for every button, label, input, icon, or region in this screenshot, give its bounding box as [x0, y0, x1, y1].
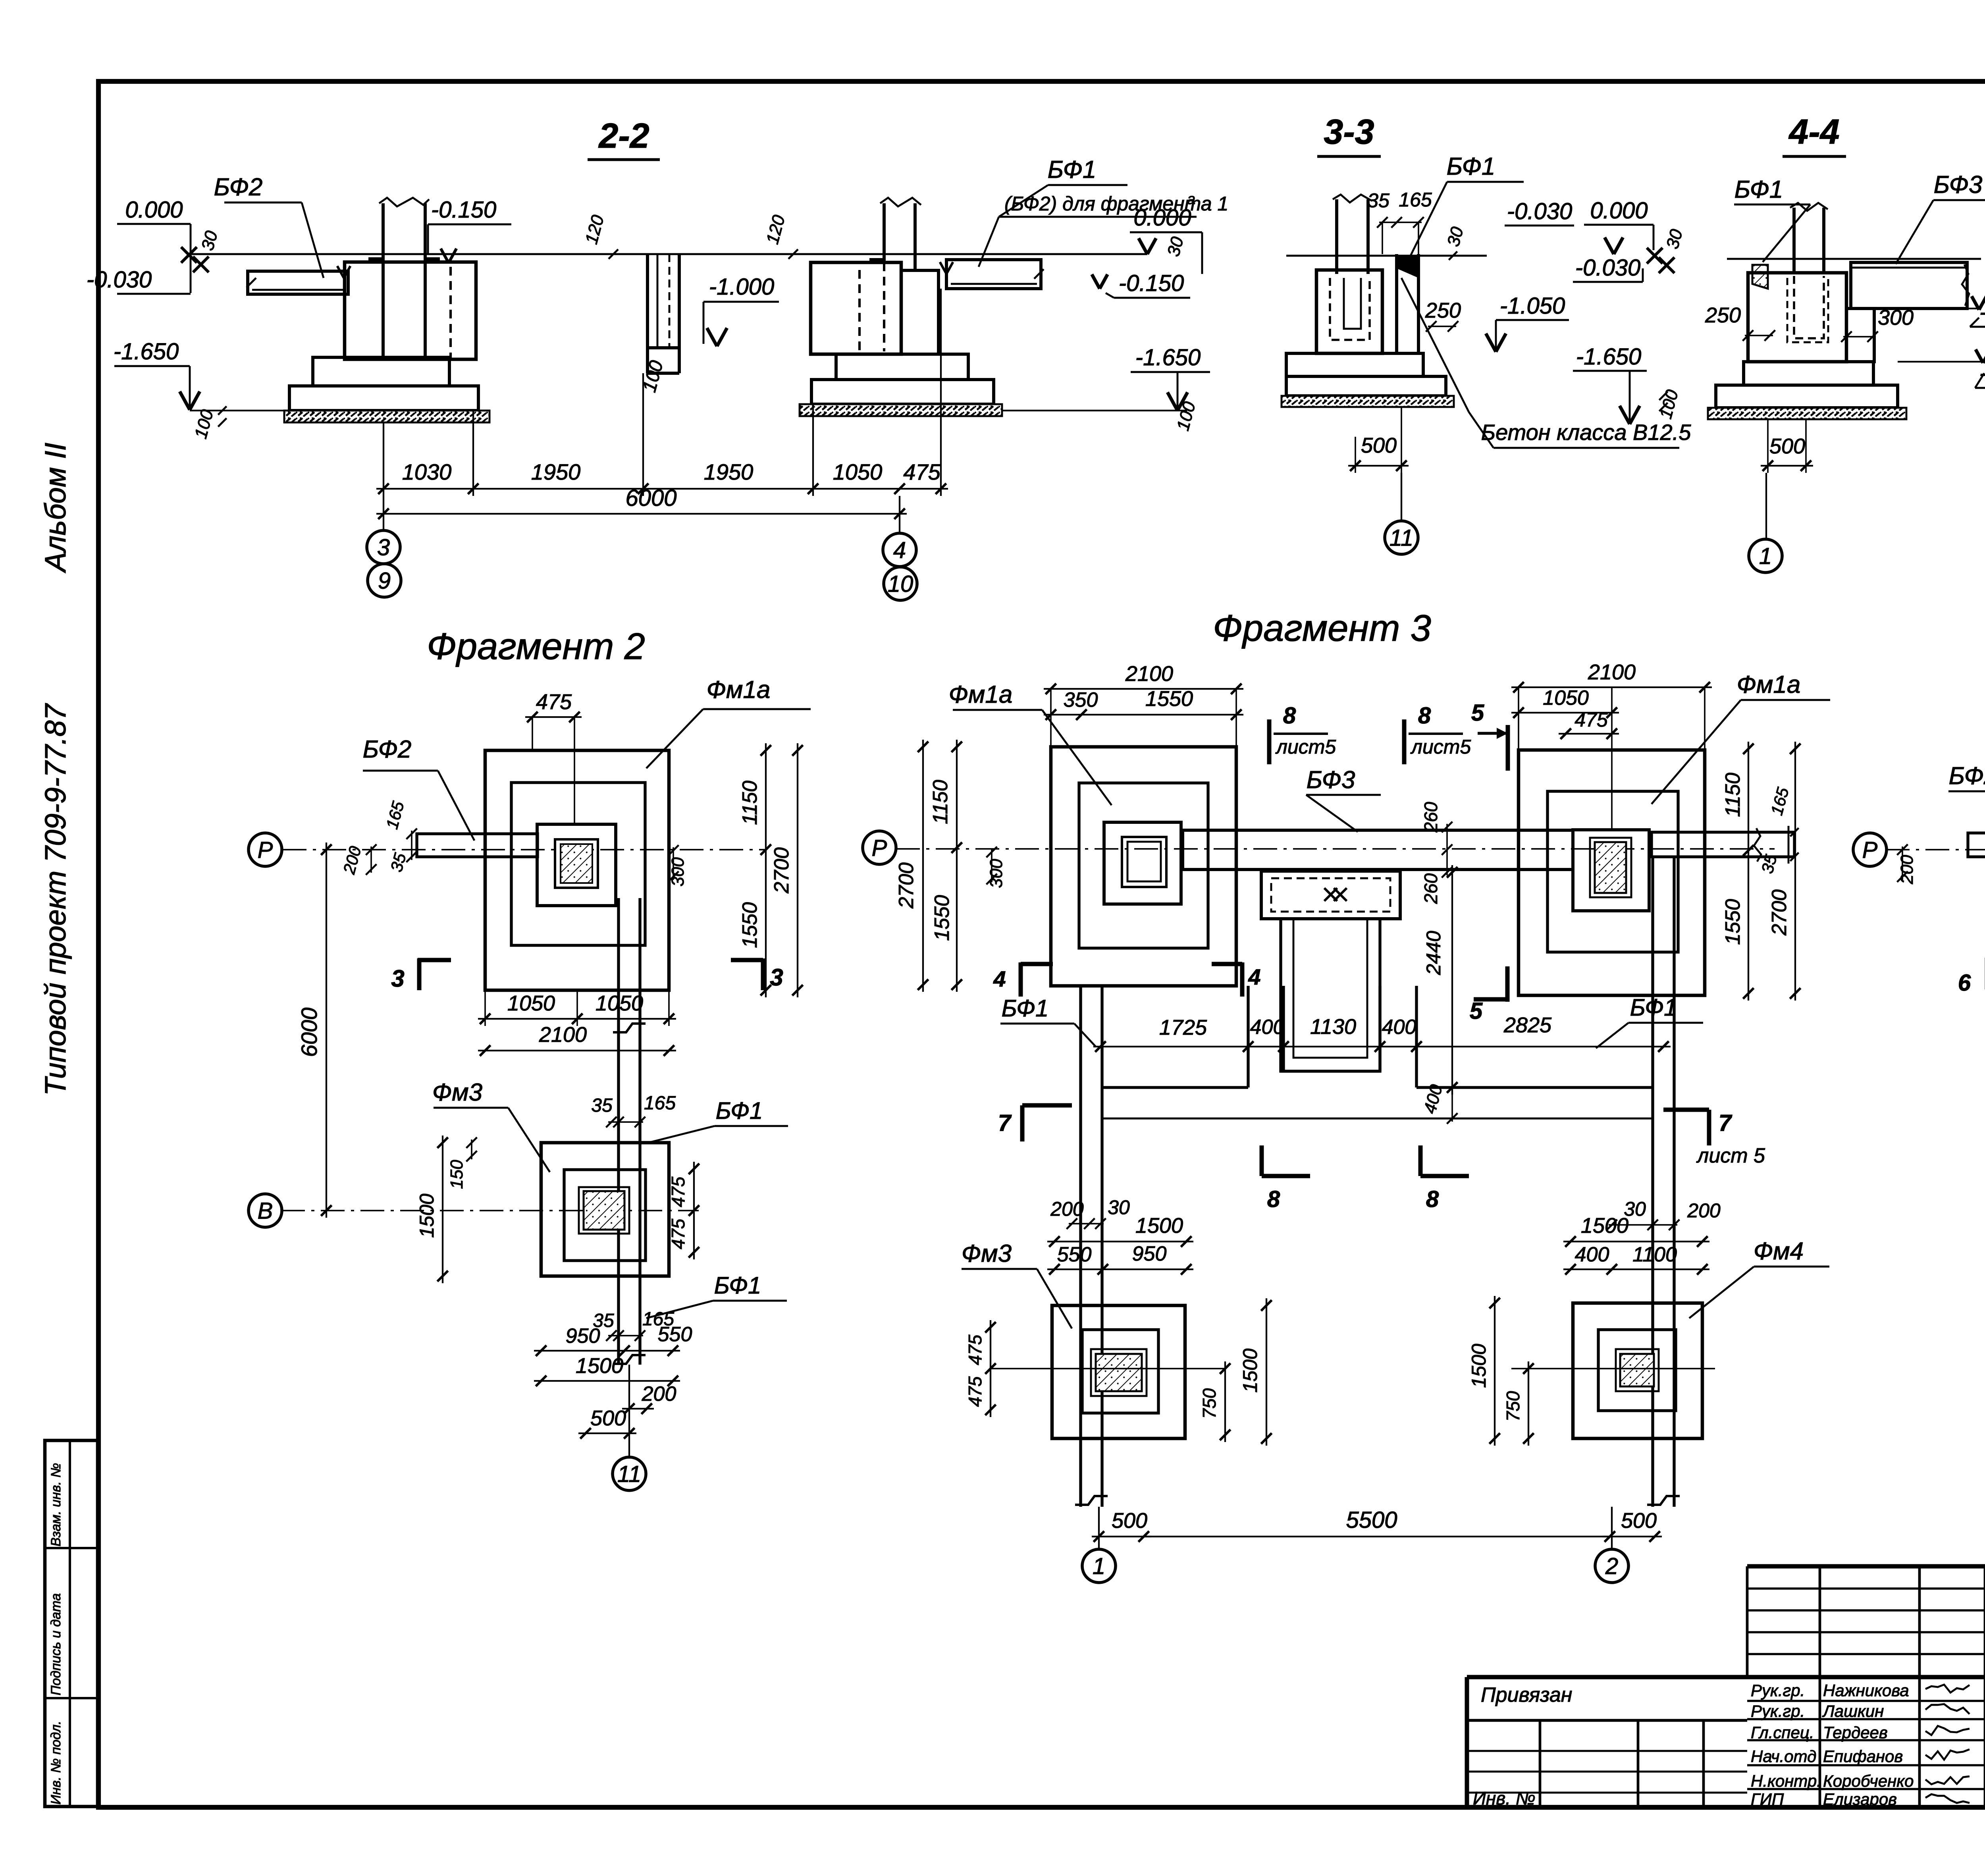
svg-text:475: 475: [965, 1334, 985, 1365]
level -1.650 (3-3/4-4): [1573, 344, 1647, 424]
svg-text:2-2: 2-2: [598, 116, 649, 155]
svg-text:1950: 1950: [531, 459, 581, 484]
note Бетон класса В12.5: [1401, 278, 1691, 448]
dim 300 (4-4): [1841, 306, 1914, 342]
footing Фм4 outline (frag3): [1573, 1303, 1702, 1438]
label Фм3 (frag3): [962, 1240, 1072, 1328]
dim 300 (frag2): [668, 845, 688, 887]
beam БФ3 plan (frag3): [1183, 830, 1573, 870]
svg-text:200: 200: [1050, 1198, 1084, 1220]
axis line (3-3): [1401, 473, 1402, 521]
pit block (4-4): [1748, 273, 1846, 362]
svg-text:-0.030: -0.030: [87, 267, 152, 293]
label БФЗ (frag3): [1306, 766, 1381, 832]
dim 500 (4-4): [1761, 419, 1813, 473]
svg-text:0.000: 0.000: [1590, 198, 1648, 224]
dim 1500 (frag3 bottom-right): [1563, 1214, 1709, 1247]
dim 350/1550 (frag3 left): [1044, 687, 1243, 720]
dim 400 vert (frag3): [1420, 1082, 1458, 1124]
svg-text:750: 750: [1199, 1388, 1220, 1419]
svg-text:475: 475: [536, 690, 572, 714]
beam БФ1 end view (4-4): [1752, 265, 1768, 289]
foundation beam БФ2 left (2-2): [247, 266, 351, 294]
axis line (4-4): [1765, 473, 1767, 539]
svg-text:30: 30: [1108, 1196, 1130, 1219]
footing Фм3 outline (frag3): [1052, 1305, 1185, 1438]
pedestal base (3-3): [1286, 376, 1446, 396]
axis circle 11 (3-3): [1385, 521, 1418, 554]
svg-text:лист 5: лист 5: [1696, 1144, 1765, 1167]
dims 1500/150 (frag2 bottom left): [416, 1136, 477, 1283]
svg-text:475: 475: [1575, 709, 1608, 731]
section mark 4 left (frag3): [993, 962, 1053, 997]
section mark 8 bottom-left (frag3): [1262, 1145, 1310, 1212]
section 3-3 title: [1317, 112, 1381, 156]
svg-text:Бетон класса В12.5: Бетон класса В12.5: [1481, 420, 1692, 445]
svg-text:-1.650: -1.650: [114, 339, 179, 364]
axis Р line (frag2): [283, 849, 766, 850]
pedestal base (4-4): [1716, 385, 1898, 408]
svg-text:Типовой проект 709-9-77.87: Типовой проект 709-9-77.87: [39, 703, 72, 1096]
axis circle 1 (4-4): [1749, 539, 1782, 573]
dim 2100 (frag2): [478, 1023, 676, 1056]
svg-text:-1.650: -1.650: [1135, 345, 1201, 370]
svg-text:Фм1а: Фм1а: [1737, 671, 1801, 698]
svg-text:475: 475: [903, 459, 940, 484]
dim 1050/1050 (frag2): [478, 990, 676, 1026]
dim 550/950 (frag3 bottom-left): [1047, 1242, 1193, 1274]
svg-text:БФ1: БФ1: [1048, 156, 1097, 183]
dim 475 top (frag2): [525, 690, 582, 825]
staff signature table: [1747, 1677, 1985, 1809]
monolith block Фм2 (frag3 centre): [1261, 871, 1400, 919]
dim 750 (frag3 bottom-left): [1199, 1361, 1230, 1442]
svg-text:7: 7: [998, 1110, 1012, 1136]
column section (frag3 bottom-right footing): [1616, 1349, 1659, 1391]
svg-text:5: 5: [1470, 998, 1483, 1024]
svg-text:-1.000: -1.000: [709, 274, 774, 300]
label БФ1 right (frag3): [1596, 994, 1703, 1048]
beam БФ2 right (frag3): [1652, 826, 1794, 864]
svg-text:Альбом II: Альбом II: [39, 443, 72, 573]
section 3-3 ground line: [1286, 255, 1487, 257]
svg-text:1550: 1550: [1721, 899, 1744, 945]
dim 35/165 top (3-3): [1367, 189, 1432, 254]
dims 475/475 (frag3 bottom-left): [965, 1320, 996, 1417]
section 4-4 ground line: [1727, 258, 1981, 260]
svg-text:260: 260: [1420, 802, 1441, 833]
section mark 3 left (frag2): [391, 958, 451, 992]
pit step right (4-4): [1846, 308, 1874, 362]
label Фм4 (frag3): [1689, 1238, 1829, 1318]
dim 100 (3-3): [1656, 388, 1682, 421]
label БФ2 (2-2): [214, 174, 324, 278]
svg-text:1500: 1500: [576, 1354, 623, 1378]
label БФ2 left (frag4): [1948, 762, 1985, 832]
gravel bed left (2-2): [284, 411, 490, 422]
svg-text:5: 5: [1471, 700, 1484, 726]
beam БФ2 plan (frag2): [417, 834, 538, 857]
section marker 8 first (frag3): [1269, 703, 1336, 764]
dim 120 left (2-2): [582, 213, 618, 259]
column section (frag2 bottom footing): [579, 1187, 629, 1234]
svg-text:400: 400: [1250, 1016, 1285, 1039]
dims 1150/1550 (frag3 left): [929, 740, 962, 992]
svg-text:лист5: лист5: [1275, 736, 1336, 758]
svg-text:2700: 2700: [1768, 889, 1791, 936]
axis circle Р (frag4): [1853, 833, 1887, 866]
svg-text:-1.050: -1.050: [1500, 293, 1565, 319]
dim 950/550 (frag2): [534, 1323, 692, 1356]
svg-text:1: 1: [1093, 1553, 1105, 1579]
svg-text:35: 35: [591, 1095, 613, 1116]
dim 500 (frag3 bottom-left): [1092, 1509, 1151, 1542]
dim 250 (3-3): [1425, 299, 1461, 332]
label Фм1а right (frag3): [1652, 671, 1830, 804]
svg-text:7: 7: [1719, 1110, 1733, 1136]
svg-text:Рук.гр.: Рук.гр.: [1751, 1702, 1805, 1720]
svg-text:2700: 2700: [895, 862, 918, 909]
axis Р line (frag4): [1886, 849, 1985, 850]
svg-text:550: 550: [1057, 1243, 1092, 1266]
dims 475/475 (frag2 bottom right): [668, 1162, 699, 1259]
axis В line (frag2): [281, 1210, 699, 1211]
pit below (frag3 centre): [1281, 919, 1380, 1071]
dim 475 (frag3 right): [1559, 687, 1619, 830]
svg-text:1050: 1050: [507, 991, 555, 1015]
svg-text:5500: 5500: [1346, 1507, 1397, 1533]
pedestal step (4-4): [1744, 362, 1873, 385]
svg-text:Фм4: Фм4: [1754, 1238, 1804, 1265]
section marker 8 second (frag3): [1404, 703, 1471, 764]
svg-text:250: 250: [1425, 299, 1461, 322]
svg-text:Р: Р: [872, 835, 887, 861]
floor duct (2-2 centre): [639, 254, 679, 395]
dim 1500 (frag3 bottom-left): [1047, 1214, 1193, 1247]
dim 30/200 (frag3 bottom-right): [1607, 1198, 1721, 1230]
svg-text:400: 400: [1382, 1016, 1416, 1039]
dims 260/260 (frag3): [1420, 802, 1452, 904]
Привязан block: [1467, 1683, 1747, 1809]
axis line to circle 11 (frag2): [628, 1365, 630, 1458]
svg-text:6: 6: [1958, 970, 1971, 996]
column pedestal Фм1а right (2-2): [811, 198, 939, 354]
section mark 7 right (frag3): [1663, 1110, 1765, 1167]
gravel bed (4-4): [1708, 408, 1906, 419]
axis circle 11 (frag2): [613, 1457, 646, 1490]
svg-text:БФ3: БФ3: [1934, 171, 1983, 199]
svg-text:500: 500: [1361, 434, 1397, 457]
svg-text:1500: 1500: [1468, 1344, 1490, 1388]
svg-text:3-3: 3-3: [1324, 112, 1374, 151]
column pit (frag3 right footing): [1573, 830, 1649, 911]
svg-text:750: 750: [1503, 1391, 1523, 1421]
svg-text:1050: 1050: [833, 459, 883, 484]
svg-text:Гл.спец.: Гл.спец.: [1751, 1723, 1814, 1742]
svg-text:475: 475: [668, 1219, 688, 1249]
svg-text:500: 500: [1769, 434, 1805, 458]
column pedestal Фм1а left (2-2): [345, 198, 476, 359]
pit block Фм (3-3): [1316, 270, 1382, 353]
svg-text:11: 11: [617, 1461, 641, 1487]
pedestal step 2 right (2-2): [811, 380, 994, 404]
svg-text:-0.150: -0.150: [1119, 270, 1184, 296]
svg-text:400: 400: [1575, 1243, 1609, 1266]
svg-text:1725: 1725: [1159, 1016, 1207, 1039]
pedestal step 1 right (2-2): [836, 354, 968, 380]
dim 300 (frag3): [987, 847, 1006, 888]
svg-text:Привязан: Привязан: [1481, 1683, 1572, 1706]
footing Фм1а right inner (frag3): [1548, 791, 1678, 952]
axis line left (2-2): [383, 496, 384, 531]
dim 1500 vert (frag3 bottom-right): [1468, 1296, 1500, 1446]
vertical beam БФ1 right (frag3): [1647, 857, 1680, 1507]
svg-text:950: 950: [566, 1325, 600, 1348]
dim 400/1100 (frag3 bottom-right): [1563, 1243, 1709, 1274]
svg-text:БФ3: БФ3: [1307, 766, 1355, 794]
dim 1500 bottom (frag2): [534, 1354, 680, 1386]
fragment 3 title: [1213, 607, 1431, 649]
footing Фм1а inner step (frag2): [511, 783, 645, 945]
level -1.000 (2-2): [703, 274, 779, 346]
svg-text:500: 500: [1112, 1509, 1147, 1533]
dim row 1725/400/1130/400/2825 (frag3): [1093, 1013, 1671, 1052]
svg-text:2: 2: [1605, 1553, 1618, 1579]
axis line horizontal (frag3 bottom-right): [1511, 1368, 1715, 1369]
svg-text:БФ2: БФ2: [214, 174, 263, 201]
svg-text:-0.030: -0.030: [1575, 255, 1640, 281]
svg-text:Р: Р: [1862, 837, 1878, 863]
svg-text:1050: 1050: [595, 991, 643, 1015]
svg-text:475: 475: [965, 1376, 985, 1407]
svg-text:165: 165: [644, 1093, 676, 1114]
section mark 7 left (frag3): [998, 1105, 1072, 1141]
svg-text:8: 8: [1426, 1186, 1439, 1212]
svg-text:БФ1: БФ1: [1734, 176, 1783, 203]
level -0.150 (2-2 left): [428, 197, 511, 263]
axis line to circle 1 (frag3): [1098, 1507, 1100, 1549]
svg-text:3: 3: [377, 534, 390, 560]
svg-text:БФ2: БФ2: [363, 736, 412, 763]
axis line right (2-2): [899, 496, 900, 534]
svg-text:БФ2: БФ2: [1949, 762, 1985, 790]
svg-text:1: 1: [1759, 543, 1772, 569]
svg-text:260: 260: [1420, 873, 1441, 904]
svg-text:10: 10: [888, 571, 913, 597]
vertical beam БФ1 left (frag3): [1075, 986, 1108, 1507]
dim 200 bottom (frag2): [622, 1382, 676, 1414]
svg-text:1950: 1950: [704, 459, 754, 484]
svg-text:Фм1а: Фм1а: [949, 681, 1013, 708]
dim 1500 vert (frag3 bottom-left): [1239, 1298, 1272, 1446]
svg-text:1550: 1550: [738, 902, 761, 948]
svg-text:950: 950: [1132, 1242, 1167, 1265]
dim row 6000 (2-2): [376, 485, 907, 519]
dim 200 (frag4 left): [1897, 844, 1917, 885]
svg-text:Инв. № подл.: Инв. № подл.: [48, 1721, 64, 1805]
fragment 2 title: [427, 625, 645, 667]
svg-text:4: 4: [993, 966, 1006, 991]
svg-text:200: 200: [642, 1382, 676, 1406]
pedestal step (3-3): [1286, 353, 1423, 376]
svg-text:1100: 1100: [1632, 1243, 1677, 1266]
svg-text:Взам. инв. №: Взам. инв. №: [48, 1463, 64, 1546]
label БФ3 (4-4): [1896, 171, 1985, 264]
svg-text:Елизаров: Елизаров: [1823, 1790, 1897, 1809]
footing Фм1а left outline (frag3): [1051, 747, 1236, 986]
svg-text:8: 8: [1283, 703, 1296, 729]
axis circle 10 (2-2): [884, 567, 917, 600]
axis line horizontal (frag3 bottom-left): [991, 1368, 1225, 1369]
section mark 4 right (frag3): [1212, 962, 1261, 997]
section mark 8 bottom-right (frag3): [1420, 1145, 1469, 1212]
axis circle 9 (2-2): [368, 564, 401, 597]
axis circle Р (frag3): [863, 831, 896, 864]
label БФ2 (frag2): [363, 736, 474, 841]
svg-text:0.000: 0.000: [1133, 205, 1191, 231]
svg-text:550: 550: [658, 1323, 692, 1346]
svg-text:165: 165: [1399, 189, 1432, 211]
svg-text:11: 11: [1389, 525, 1413, 551]
svg-text:Н.контр.: Н.контр.: [1751, 1772, 1821, 1790]
beam БФ1 end view (3-3): [1397, 254, 1418, 353]
dim 2700 (frag3 left): [895, 740, 928, 992]
svg-text:8: 8: [1418, 703, 1431, 729]
svg-text:Фм1а: Фм1а: [707, 676, 771, 704]
svg-text:300: 300: [1878, 306, 1914, 330]
svg-text:Нажникова: Нажникова: [1823, 1681, 1909, 1700]
dims 200/35/165 (frag2 beam): [339, 799, 417, 876]
svg-text:ГИП: ГИП: [1751, 1790, 1784, 1809]
beam БФ3 (4-4): [1851, 262, 1969, 308]
axis line to circle 2 (frag3): [1611, 1507, 1613, 1549]
dim row 1030/1950/1950/1050/475 (2-2): [376, 289, 948, 496]
level -1.650 right (2-2): [1002, 345, 1210, 433]
column section (frag3 bottom-left footing): [1091, 1349, 1147, 1396]
label БФ1/(БФ2) для фрагмента 1а (2-2): [979, 156, 1228, 267]
dim 500 bottom (frag2): [578, 1406, 636, 1438]
svg-text:1030: 1030: [402, 459, 452, 484]
section 2-2 ground line: [191, 253, 1147, 255]
svg-text:1150: 1150: [1721, 773, 1744, 817]
svg-text:1550: 1550: [1145, 687, 1193, 711]
svg-text:475: 475: [668, 1176, 688, 1207]
svg-text:1150: 1150: [929, 780, 952, 824]
dims 35/165 mid (frag2): [591, 1093, 676, 1127]
svg-text:Епифанов: Епифанов: [1823, 1747, 1903, 1766]
label БФ1 (4-4): [1734, 176, 1810, 262]
svg-text:500: 500: [1621, 1509, 1657, 1533]
svg-text:лист5: лист5: [1410, 736, 1471, 758]
column above ground (3-3): [1333, 195, 1372, 274]
axis Р line (frag3): [896, 848, 1775, 850]
svg-text:1500: 1500: [416, 1193, 438, 1238]
axis circle 3 (2-2): [367, 530, 400, 564]
svg-text:1150: 1150: [738, 781, 761, 825]
dim 500 (frag3 bottom-right): [1603, 1509, 1662, 1542]
axis circle В (frag2): [249, 1194, 282, 1227]
svg-text:6000: 6000: [625, 485, 676, 511]
svg-text:2440: 2440: [1422, 931, 1445, 975]
svg-text:-0.030: -0.030: [1507, 199, 1572, 224]
section 2-2 level -1.650 left: [114, 339, 284, 441]
footing Фм1а left inner (frag3): [1079, 783, 1208, 948]
svg-text:200: 200: [1687, 1199, 1721, 1222]
section 2-2 title: [588, 116, 660, 160]
svg-text:Подпись и дата: Подпись и дата: [48, 1593, 64, 1695]
pedestal step 2 left (2-2): [289, 386, 478, 411]
svg-text:1500: 1500: [1135, 1214, 1183, 1238]
level -1.050 (4-4): [1898, 349, 1985, 388]
level -1.050 (3-3): [1486, 293, 1569, 352]
dims 1150/1550 (frag2 right): [738, 743, 771, 997]
vertical beam БФ1 (frag2): [613, 898, 646, 1365]
footing Фм3 inner (frag3): [1082, 1330, 1158, 1413]
svg-text:-0.150: -0.150: [431, 197, 496, 223]
column pit (frag2 top footing): [537, 824, 616, 906]
footing Фм1а outline (frag2): [485, 750, 669, 990]
svg-text:1130: 1130: [1310, 1015, 1356, 1039]
svg-text:Фм3: Фм3: [962, 1240, 1012, 1267]
axis circle 1 (frag3): [1082, 1549, 1116, 1583]
levels 0.000/-0.030 cluster (3-3/4-4): [1505, 198, 1686, 282]
svg-text:-1.650: -1.650: [1576, 344, 1641, 370]
svg-text:3: 3: [391, 965, 404, 992]
svg-text:Тердеев: Тердеев: [1823, 1723, 1888, 1742]
sidebar stamp table: [45, 1440, 98, 1807]
svg-text:1500: 1500: [1239, 1348, 1261, 1392]
axis circle Р (frag2): [249, 833, 282, 866]
column (4-4): [1790, 203, 1828, 338]
axis circle 4 (2-2): [883, 533, 916, 567]
label Фм1а (frag2): [646, 676, 811, 768]
dim 200/30 (frag3 bottom-left): [1050, 1196, 1130, 1229]
dim 6000 (frag2): [297, 843, 331, 1218]
svg-text:БФ1: БФ1: [1002, 995, 1049, 1022]
svg-text:3: 3: [770, 964, 783, 991]
svg-text:БФ1: БФ1: [1447, 153, 1495, 180]
svg-text:Фрагмент 3: Фрагмент 3: [1213, 607, 1431, 649]
axis circle 2 (frag3): [1595, 1549, 1628, 1583]
footing Фм1а right outline (frag3): [1519, 750, 1705, 995]
svg-text:250: 250: [1705, 303, 1741, 327]
section 4-4 title: [1783, 112, 1846, 156]
label БФ1 mid (frag2): [645, 1097, 788, 1143]
dim 2100 top (frag3 left): [1044, 662, 1243, 747]
dims 35/165 bottom (frag2): [593, 1309, 674, 1341]
svg-text:Р: Р: [258, 837, 273, 863]
dim 5500 (frag3): [1144, 1507, 1610, 1537]
label Фм3 (frag2): [432, 1079, 550, 1172]
svg-text:БФ1: БФ1: [716, 1097, 763, 1124]
label БФ1 upper left (frag3): [1000, 995, 1096, 1047]
svg-text:2100: 2100: [1125, 662, 1173, 686]
svg-text:БФ1: БФ1: [714, 1272, 761, 1299]
level 0.000 right (2-2): [1130, 205, 1202, 274]
dim 750 (frag3 bottom-right): [1503, 1361, 1534, 1446]
dim 500 (3-3): [1348, 407, 1409, 473]
svg-text:БФ1: БФ1: [1630, 994, 1677, 1021]
svg-text:Фм3: Фм3: [432, 1079, 482, 1106]
svg-text:8: 8: [1267, 1186, 1280, 1212]
dims 165/35 (frag3 right beam): [1758, 785, 1798, 875]
dim 2100 top (frag3 right): [1511, 660, 1712, 750]
title block main lines: [1467, 1566, 1985, 1807]
label Фм1а left (frag3): [949, 681, 1112, 805]
column pit (frag3 left footing): [1104, 822, 1181, 904]
dim 2440 (frag3): [1422, 865, 1457, 1095]
svg-text:2100: 2100: [1588, 660, 1636, 684]
